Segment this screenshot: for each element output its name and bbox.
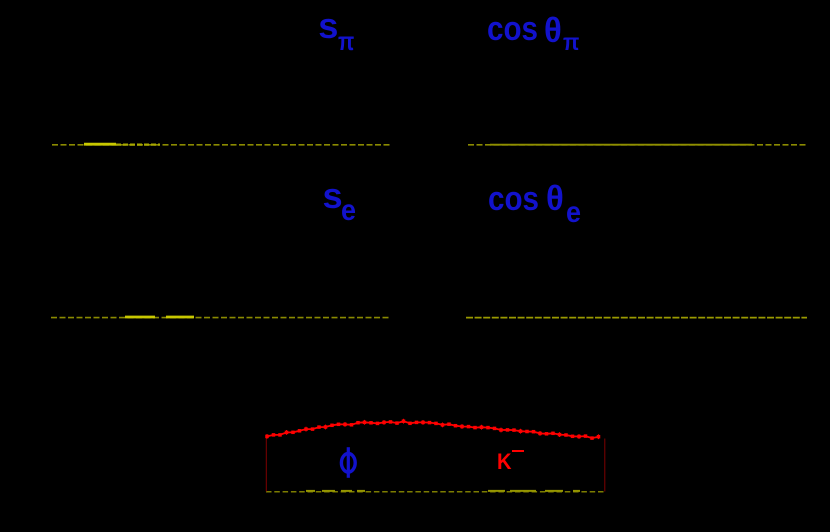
red data curve with point markers <box>267 421 599 438</box>
label cos (of cos theta_e) <box>488 182 539 216</box>
wire red histogram right edge <box>604 439 606 492</box>
wire top-right slightly brighter middle <box>490 144 752 146</box>
wire middle-left zero histogram (dashed yellow) <box>51 317 390 319</box>
label pi subscript (of cos theta_pi) <box>563 31 579 54</box>
wire middle-left bright segments <box>125 316 155 319</box>
wire top-left zero histogram (dashed yellow) <box>52 144 391 146</box>
label phi (drawn: ellipse + vertical bar) <box>341 447 355 478</box>
wire middle-right zero histogram (dashed yellow) <box>466 317 807 319</box>
label e subscript (of s_e) <box>341 196 356 226</box>
label s (of s_pi) <box>318 8 338 44</box>
label theta (of cos theta_e) <box>546 181 564 216</box>
wire bottom bright bins <box>306 490 315 492</box>
label theta (of cos theta_pi) <box>544 13 562 48</box>
label pi subscript (of s_pi) <box>338 28 354 54</box>
label K (of K minus) <box>497 451 512 473</box>
wire red histogram left edge <box>265 437 267 492</box>
wire top-left bright signal bump <box>84 143 116 146</box>
label e subscript (of cos theta_e) <box>566 198 581 228</box>
wire bottom zero histogram (dashed yellow) <box>266 491 605 493</box>
label cos (of cos theta_pi) <box>487 12 538 46</box>
wire top-right zero histogram (dashed yellow) <box>468 144 807 146</box>
label s (of s_e) <box>323 178 343 214</box>
label minus superscript (of K minus) <box>512 450 524 452</box>
